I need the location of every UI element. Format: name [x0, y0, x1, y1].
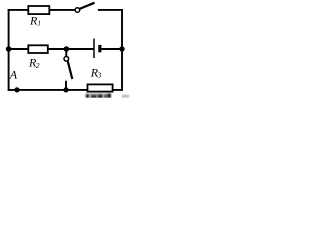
svg-text:1: 1 [37, 19, 41, 28]
switch S2 lead from middle wire [65, 49, 67, 57]
resistor R3 [88, 84, 113, 91]
cropped text remnant bottom-right [122, 95, 129, 98]
resistor R2 [28, 45, 48, 53]
wire: battery to right junction [101, 48, 122, 50]
wire: middle horizontal (left part, under R2) [9, 48, 94, 50]
wire: switch S1 to top-right corner [98, 9, 123, 11]
battery negative plate (short thick) [98, 45, 101, 52]
battery positive plate (long) [93, 39, 95, 58]
svg-text:3: 3 [97, 70, 102, 79]
wire: left border [8, 9, 10, 91]
switch S1 pivot [75, 8, 80, 13]
node: middle junction (switch S2 tap) [64, 46, 70, 52]
wire: right border [121, 9, 123, 91]
node: point A on bottom wire [14, 87, 19, 92]
cropped text remnant below R3 [86, 93, 112, 98]
wire: top-left segment to R1 [8, 9, 28, 11]
switch S2 fixed contact stub [65, 81, 67, 90]
wire: R1 to switch S1 [50, 9, 75, 11]
switch S1 blade [80, 3, 95, 9]
node: bottom junction below switch S2 [63, 87, 68, 92]
resistor R1 [28, 6, 49, 14]
switch S2 blade [68, 61, 73, 79]
switch S2 pivot [64, 57, 69, 62]
node: left middle junction [6, 46, 12, 52]
node: right middle junction [119, 46, 124, 51]
svg-text:2: 2 [36, 61, 40, 70]
wire: bottom border [8, 89, 123, 91]
svg-text:A: A [9, 68, 18, 82]
